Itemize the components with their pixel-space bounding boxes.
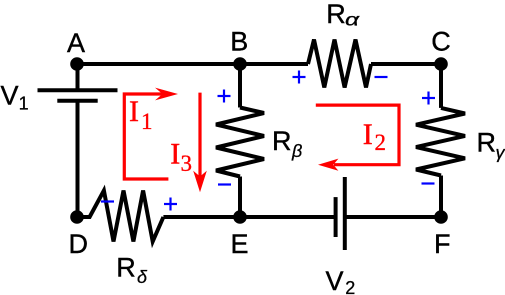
polarity - bottom of R_beta [218, 183, 231, 185]
node B [233, 57, 247, 71]
battery V1 long plate [38, 88, 118, 92]
label C [431, 27, 451, 57]
label E [230, 229, 248, 259]
polarity + right of R_delta [164, 198, 177, 211]
label F [434, 229, 451, 259]
svg-text:V: V [1, 80, 19, 110]
label I3 [170, 138, 192, 176]
polarity - left of R_delta [101, 200, 114, 202]
label R_gamma [477, 128, 505, 163]
node C [434, 57, 448, 71]
label D [68, 229, 88, 259]
node D [70, 210, 84, 224]
node E [233, 210, 247, 224]
wire V2 to F [345, 215, 441, 219]
label V2 [326, 266, 356, 295]
current arrow I3 arrowhead [193, 171, 207, 193]
resistor R_gamma [416, 108, 465, 176]
polarity + top of R_beta [218, 90, 231, 103]
polarity + top of R_gamma [422, 92, 435, 105]
wire R_gamma to F [439, 176, 443, 218]
label I1 [129, 95, 153, 134]
resistor R_delta [77, 191, 163, 242]
svg-text:I: I [170, 138, 180, 171]
polarity - right of R_alpha [375, 76, 388, 78]
node A [70, 57, 84, 71]
svg-text:3: 3 [181, 151, 193, 176]
battery V2 long plate [343, 177, 347, 250]
current loop I2 arrowhead [318, 159, 338, 171]
svg-text:γ: γ [496, 143, 505, 163]
label V1 [1, 80, 29, 113]
wire A down to V1 top plate [76, 64, 80, 90]
svg-text:I: I [129, 95, 139, 128]
svg-text:R: R [326, 0, 346, 29]
resistor R_beta [216, 108, 264, 177]
wire V1 bottom plate to D [76, 101, 80, 217]
label R_alpha [326, 0, 360, 29]
node F [434, 210, 448, 224]
svg-text:R: R [477, 128, 497, 158]
wire R_delta to E bottom rail [163, 215, 240, 219]
svg-text:R: R [116, 253, 136, 283]
label A [67, 28, 85, 58]
svg-text:F: F [434, 229, 451, 259]
svg-text:R: R [272, 126, 292, 156]
wire A-B top rail [77, 62, 308, 66]
svg-text:β: β [291, 141, 302, 161]
label B [230, 27, 248, 57]
current loop I2 [316, 105, 399, 165]
svg-text:V: V [326, 266, 344, 295]
battery V2 short plate [334, 197, 338, 237]
label R_delta [116, 253, 148, 288]
label I2 [363, 118, 386, 155]
svg-text:α: α [345, 9, 360, 29]
current arrow I3 [198, 93, 201, 177]
svg-text:D: D [68, 229, 88, 259]
wire R_beta to E [238, 177, 242, 218]
svg-text:2: 2 [345, 278, 355, 295]
polarity - bottom of R_gamma [422, 182, 435, 184]
svg-text:C: C [431, 27, 451, 57]
svg-text:2: 2 [375, 130, 387, 155]
svg-text:1: 1 [141, 109, 153, 134]
wire E to V2 [240, 215, 336, 219]
label R_beta [272, 126, 302, 161]
svg-text:δ: δ [137, 267, 148, 287]
wire R_alpha to C [371, 62, 441, 66]
svg-text:A: A [67, 28, 85, 58]
wire B down to R_beta [238, 64, 242, 108]
svg-text:E: E [230, 229, 248, 259]
current loop I1 arrowhead [155, 88, 178, 101]
polarity + left of R_alpha [293, 71, 306, 84]
svg-text:B: B [230, 27, 248, 57]
svg-text:I: I [363, 118, 373, 151]
battery V1 short plate [57, 99, 97, 103]
svg-text:1: 1 [19, 94, 29, 114]
current loop I1 [124, 94, 168, 179]
resistor R_alpha [308, 40, 371, 88]
wire C down to R_gamma [439, 64, 443, 108]
